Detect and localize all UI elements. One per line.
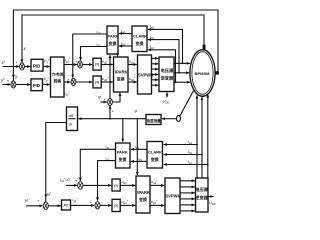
svg-text:变换: 变换	[119, 156, 128, 162]
wire ic2 tap	[148, 50, 176, 82]
wire phase b2	[174, 72, 189, 74]
sensor square right of motor	[215, 71, 218, 74]
PI controller 2	[93, 76, 101, 88]
svg-text:ia1: ia1	[188, 140, 192, 145]
svg-text:PID: PID	[33, 64, 40, 69]
node y* input	[3, 84, 11, 86]
svg-text:PARK: PARK	[117, 150, 128, 155]
motor BPMSM outer	[190, 50, 215, 97]
wire SB to PI q	[100, 204, 111, 206]
wire speed sum to PI speed	[48, 205, 61, 207]
wire motor to encoder diagonal	[180, 91, 194, 117]
wires SVPWM to inverter (6 pwm)	[152, 57, 159, 59]
block PARK (top)	[107, 26, 118, 54]
junction dots on phase taps top	[182, 63, 184, 65]
wire theta-hat stub into angle sum	[101, 101, 107, 103]
wire phase a2	[174, 62, 190, 64]
wire PI q to IPARK bottom	[120, 204, 135, 206]
wire feedback y (outer top)	[13, 10, 218, 78]
svg-text:SVPWM: SVPWM	[165, 194, 181, 199]
wire ia1 tap	[164, 144, 197, 146]
wire conv to S3	[64, 64, 77, 66]
junction dots on theta wire	[109, 118, 111, 120]
svg-text:iα1: iα1	[135, 145, 139, 150]
wire id1*=0 input	[66, 184, 77, 186]
wire S1 to PID1	[24, 66, 30, 68]
svg-text:iβ2: iβ2	[121, 42, 126, 47]
svg-text:ic2: ic2	[150, 45, 154, 50]
svg-text:id1: id1	[106, 145, 110, 150]
block SVPWM (top)	[138, 55, 152, 94]
svg-text:ia2: ia2	[150, 25, 154, 30]
svg-text:变换: 变换	[139, 196, 148, 202]
wire S3 to PI1	[82, 64, 92, 66]
junction dots on phase taps bottom	[196, 144, 198, 146]
wire angle sum down to theta wire	[109, 106, 111, 119]
svg-text:电压源: 电压源	[161, 67, 174, 74]
wire ib1 tap	[164, 154, 202, 156]
svg-text:PARK: PARK	[108, 34, 119, 39]
svg-text:ic1: ic1	[188, 160, 192, 165]
block voltage source inverter (bottom)	[196, 178, 209, 212]
wire id2 feedback from PARK to S3	[81, 47, 108, 61]
wire PI2 to IPARK	[101, 81, 113, 83]
svg-text:id2: id2	[97, 43, 101, 48]
wire CLARK to PARK ibeta1	[131, 160, 147, 162]
block SVPWM (bottom)	[165, 178, 180, 214]
PI q controller	[112, 199, 120, 211]
wire CLARK to PARK ialpha1	[131, 148, 147, 150]
wire omega* input	[26, 205, 43, 207]
svg-text:iα2: iα2	[121, 29, 125, 34]
block force/current conversion	[51, 57, 65, 97]
wire ia2 tap	[148, 29, 183, 63]
svg-text:IPARK: IPARK	[115, 70, 128, 75]
svg-text:变换: 变换	[136, 40, 145, 46]
wire PI speed to SB	[71, 204, 95, 206]
svg-text:变换: 变换	[117, 76, 126, 82]
wire angle sum to IPARK bottom	[112, 93, 120, 102]
wire ib2 tap	[148, 40, 179, 73]
block IPARK (bottom)	[136, 176, 150, 213]
wires SVPWM to inverter bottom (6 pwm)	[180, 180, 195, 182]
svg-text:变换: 变换	[109, 40, 118, 46]
svg-text:BPMSM: BPMSM	[195, 71, 211, 76]
wire id1 feedback to SA	[80, 149, 115, 180]
wire IPARK to SVPWM ub2	[128, 81, 137, 83]
wire PID2 to force/current block	[42, 84, 49, 86]
wire phase a1 up to motor	[196, 95, 198, 178]
summing junction S3	[78, 61, 83, 68]
wire IPARK to SVPWM ualpha1	[150, 184, 164, 186]
summing junction SB (q axis)	[95, 202, 100, 209]
wire angle sum up to PARK	[109, 55, 111, 99]
node x* input	[3, 66, 20, 68]
wire conv to S4	[64, 81, 70, 83]
svg-text:CLARK: CLARK	[148, 150, 162, 155]
svg-text:ib1: ib1	[188, 150, 192, 155]
summing junction S1 (x)	[20, 63, 25, 70]
block CLARK (top)	[132, 26, 147, 52]
encoder circle	[177, 116, 181, 122]
svg-text:iq1: iq1	[106, 156, 110, 161]
wire CLARK to PARK ibeta2	[119, 45, 132, 47]
PI speed controller	[62, 200, 71, 210]
summing junction S4	[71, 78, 76, 85]
angle sum circle	[108, 98, 113, 105]
svg-text:变换: 变换	[151, 156, 160, 162]
svg-text:iq2: iq2	[97, 30, 101, 35]
wire phase c1 up to motor	[207, 94, 209, 178]
wire omega-hat to speed sum	[46, 123, 67, 198]
wire PI d to IPARK bottom	[120, 184, 135, 186]
block d-theta/dt	[67, 107, 78, 131]
wire theta to bottom PARK	[122, 119, 124, 142]
wire S2 to PID2	[16, 84, 30, 86]
wire iq2 feedback from PARK to S4	[73, 34, 107, 78]
svg-text:力/电流: 力/电流	[52, 72, 64, 77]
stub PARK to IPARK angle	[117, 54, 119, 56]
svg-text:IPARK: IPARK	[137, 190, 150, 195]
svg-text:CLARK: CLARK	[133, 34, 147, 39]
svg-text:电压源: 电压源	[195, 186, 208, 193]
summing junction SA (d axis)	[78, 182, 83, 190]
svg-text:转换: 转换	[54, 79, 62, 84]
sensor bar top of motor	[203, 45, 206, 50]
svg-text:PID: PID	[33, 83, 40, 88]
wire phase b1 up to motor	[201, 97, 203, 178]
wire theta to bottom IPARK	[136, 119, 138, 175]
svg-text:SVPWM: SVPWM	[138, 73, 154, 78]
wire ic1 tap	[164, 164, 208, 166]
svg-text:逆变器: 逆变器	[161, 75, 174, 82]
wire IPARK to SVPWM ubeta1	[150, 204, 164, 206]
wire phase c2	[174, 81, 190, 83]
wire IPARK to SVPWM ua2	[128, 64, 137, 66]
stub Udc top	[166, 93, 168, 98]
wire encoder to angle measurement	[162, 118, 177, 120]
PID controller 1	[31, 59, 43, 71]
wire S4 to PI2	[76, 81, 92, 83]
wire theta from angle measurement	[78, 118, 146, 120]
svg-text:ib2: ib2	[150, 35, 154, 40]
wire feedback x (inner top)	[22, 15, 204, 63]
summing junction speed	[43, 202, 48, 209]
svg-text:角度测量: 角度测量	[147, 118, 161, 123]
wire iq1 feedback to SB	[98, 161, 116, 201]
wire PI1 to IPARK	[101, 64, 113, 66]
block CLARK (bottom)	[147, 142, 163, 169]
wire Udc bottom	[209, 196, 214, 198]
svg-text:iβ1: iβ1	[138, 157, 143, 162]
wire PID1 to force/current block	[43, 66, 50, 68]
PI controller 1	[93, 58, 101, 70]
block voltage source inverter (top)	[159, 57, 174, 92]
motor BPMSM inner	[192, 52, 213, 95]
wire SA to PI d	[83, 184, 111, 186]
block IPARK (top)	[114, 57, 129, 92]
svg-text:逆变器: 逆变器	[195, 194, 208, 201]
block PARK (bottom)	[116, 143, 131, 168]
block angle measurement	[146, 115, 161, 125]
wire CLARK to PARK ialpha2	[119, 33, 132, 35]
PID controller 2	[31, 79, 42, 91]
summing junction S2 (y)	[11, 81, 16, 88]
PI d controller	[112, 179, 120, 191]
